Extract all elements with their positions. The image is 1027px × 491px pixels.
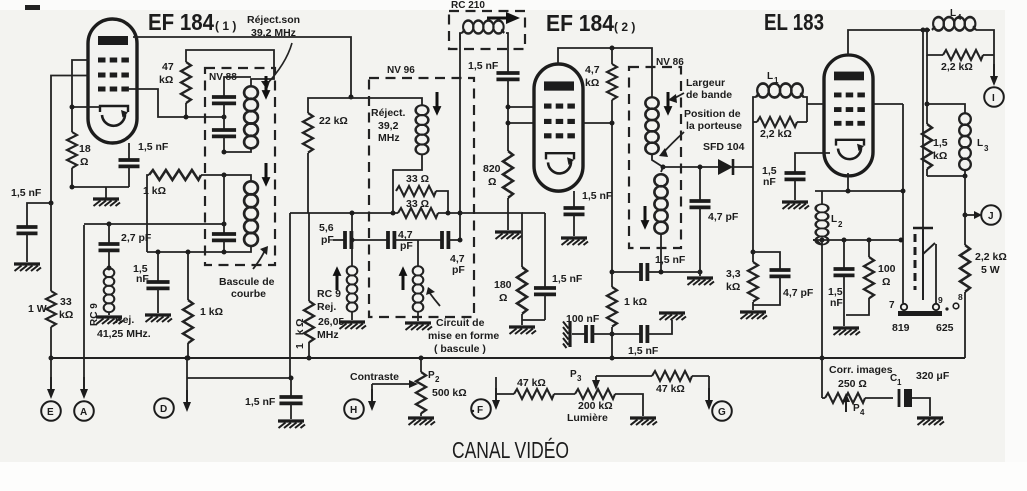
svg-text:( 2 ): ( 2 ) bbox=[614, 20, 635, 34]
capacitor 1,5 nF NV88 bbox=[133, 252, 170, 313]
svg-text:1,5 nF: 1,5 nF bbox=[582, 190, 613, 202]
resistor 1 kOhm vertical bbox=[183, 252, 223, 361]
svg-text:2: 2 bbox=[838, 220, 843, 229]
svg-text:Corr. images: Corr. images bbox=[829, 364, 893, 376]
wire Cx line bbox=[290, 213, 308, 378]
ground P2 bbox=[408, 418, 435, 425]
svg-text:Rej.: Rej. bbox=[115, 314, 134, 326]
wire grid1 V1 left bbox=[51, 76, 89, 204]
capacitor C1 electrolytic bbox=[899, 389, 930, 416]
potentiometer P3 200k Lumière bbox=[567, 369, 615, 424]
svg-text:pF: pF bbox=[321, 234, 334, 246]
coil L2 bbox=[813, 191, 843, 245]
svg-text:18: 18 bbox=[79, 143, 91, 155]
wire top NV96 bbox=[308, 98, 422, 113]
arrow NV86 lower bbox=[641, 206, 650, 230]
terminal I bbox=[984, 55, 1004, 107]
ground C1 bbox=[917, 418, 944, 425]
ground RC9 26,05 bbox=[339, 322, 366, 329]
svg-text:P: P bbox=[428, 370, 435, 381]
svg-text:Rej.: Rej. bbox=[317, 301, 336, 313]
ground 1,5nF screen bbox=[659, 313, 686, 320]
ground 1,5nF NV88 bbox=[145, 315, 172, 322]
terminal F bbox=[471, 399, 491, 419]
capacitor 4,7 pF detector bbox=[690, 165, 739, 273]
bus wire bbox=[49, 357, 965, 359]
label EF 184 (2) bbox=[546, 10, 635, 36]
svg-text:1,5 nF: 1,5 nF bbox=[138, 141, 169, 153]
wire P3 wiper row bbox=[596, 375, 652, 377]
wire 47k bottom bbox=[185, 103, 187, 117]
svg-text:1 W: 1 W bbox=[28, 303, 47, 315]
svg-text:1,5 nF: 1,5 nF bbox=[468, 60, 499, 72]
arrow RC210 bbox=[487, 12, 520, 24]
wire anode V2 top bbox=[558, 46, 652, 98]
ground P3 bbox=[630, 418, 657, 425]
coil L3 bbox=[959, 113, 989, 176]
resistor 3,3 kOhm bbox=[726, 167, 758, 310]
wire screen EL down bbox=[922, 30, 924, 228]
svg-text:3: 3 bbox=[984, 144, 989, 153]
capacitor NV88 upper B bbox=[212, 117, 236, 151]
svg-text:1: 1 bbox=[897, 378, 902, 387]
svg-text:1 kΩ: 1 kΩ bbox=[200, 306, 223, 318]
coil NV88 lower bbox=[244, 181, 258, 246]
svg-text:320 μF: 320 μF bbox=[916, 370, 950, 382]
label Largeur de bande bbox=[686, 77, 732, 101]
resistor 820 Ohm bbox=[483, 151, 513, 230]
svg-text:4: 4 bbox=[957, 13, 962, 22]
potentiometer P4 250 Ohm bbox=[822, 358, 893, 417]
svg-text:100: 100 bbox=[878, 263, 896, 275]
leader circuit mise en forme bbox=[429, 292, 440, 306]
diode SFD104 bbox=[663, 159, 753, 175]
svg-text:5,6: 5,6 bbox=[319, 222, 334, 234]
capacitor 4,7 pF b bbox=[394, 231, 465, 276]
ground RC9 bbox=[96, 317, 123, 324]
resistor 33 Ohm lower bbox=[308, 191, 460, 218]
svg-text:la porteuse: la porteuse bbox=[686, 120, 742, 132]
box RC210 bbox=[449, 0, 525, 49]
svg-text:pF: pF bbox=[452, 264, 465, 276]
capacitor 1,5 nF det line bbox=[612, 254, 686, 281]
resistor 47 kOhm left bbox=[496, 377, 575, 399]
label Circuit de mise en forme (bascule) bbox=[428, 317, 499, 355]
svg-text:1: 1 bbox=[774, 76, 779, 85]
wire grid2 bias line bbox=[84, 222, 227, 227]
svg-text:P: P bbox=[853, 403, 860, 414]
wire 47k top feed bbox=[186, 50, 274, 79]
svg-text:Contraste: Contraste bbox=[350, 371, 399, 383]
node anode feed bbox=[349, 95, 354, 100]
coil NV86 lower bbox=[654, 167, 667, 272]
svg-text:RC 210: RC 210 bbox=[451, 0, 485, 11]
tube V2 EF184(2) bbox=[534, 64, 583, 191]
svg-text:4,7 pF: 4,7 pF bbox=[783, 287, 814, 299]
svg-text:mise en forme: mise en forme bbox=[428, 330, 499, 342]
svg-text:3,3: 3,3 bbox=[726, 268, 741, 280]
svg-text:de bande: de bande bbox=[686, 89, 732, 101]
switch arrow bascule bbox=[253, 250, 265, 269]
wire F arrow bbox=[492, 377, 500, 410]
arrow bascule coil bbox=[399, 266, 408, 290]
svg-text:MHz: MHz bbox=[317, 329, 339, 341]
svg-text:4: 4 bbox=[860, 408, 865, 417]
resistor 33 Ohm upper bbox=[396, 173, 448, 213]
svg-text:A: A bbox=[80, 407, 87, 418]
capacitor 100 nF bbox=[563, 313, 612, 348]
svg-text:39,2: 39,2 bbox=[378, 120, 399, 132]
svg-text:courbe: courbe bbox=[231, 288, 266, 300]
wire screen line down bbox=[583, 100, 615, 287]
node bus D bbox=[185, 356, 190, 361]
resistor 47 kOhm bbox=[159, 61, 191, 103]
capacitor 1,5 nF cathode V2 bbox=[564, 190, 613, 236]
svg-text:7: 7 bbox=[889, 300, 895, 311]
capacitor 5,6 pF bbox=[319, 222, 351, 249]
svg-text:1,5: 1,5 bbox=[933, 137, 948, 149]
svg-text:CANAL VIDÉO: CANAL VIDÉO bbox=[452, 437, 569, 463]
svg-text:Ω: Ω bbox=[499, 292, 507, 304]
wire coil1 bottom bbox=[222, 149, 252, 155]
resistor 180 Ohm bbox=[494, 267, 527, 325]
svg-text:47: 47 bbox=[162, 61, 174, 73]
svg-text:22 kΩ: 22 kΩ bbox=[319, 115, 348, 127]
label Réject.son 39,2 MHz bbox=[247, 14, 300, 39]
svg-text:5 W: 5 W bbox=[981, 264, 1000, 276]
coil L1 bbox=[753, 71, 807, 167]
svg-text:kΩ: kΩ bbox=[59, 309, 73, 321]
wire 1k left elbow bbox=[147, 175, 149, 252]
svg-text:200 kΩ: 200 kΩ bbox=[578, 400, 613, 412]
potentiometer P2 500k bbox=[416, 356, 467, 417]
coil RC9 26,05 bbox=[347, 211, 358, 321]
piezo element top bar bbox=[913, 228, 933, 300]
ground 1,5nF D bbox=[278, 421, 305, 428]
svg-text:NV 86: NV 86 bbox=[656, 57, 684, 68]
ground cathode EL bbox=[833, 328, 860, 335]
svg-text:9: 9 bbox=[938, 295, 943, 305]
capacitor 1,5 nF cathode V1 bbox=[119, 141, 169, 187]
capacitor NV88 upper A bbox=[212, 77, 251, 117]
svg-text:1 kΩ: 1 kΩ bbox=[294, 316, 306, 349]
coil RC210 bbox=[460, 21, 508, 40]
wire L3 bottom join bbox=[927, 174, 968, 218]
wire G arrow bbox=[705, 376, 713, 410]
resistor 1 kOhm horizontal bbox=[143, 170, 201, 197]
wire grid line down to 33k bbox=[50, 203, 52, 291]
resistor 22 kOhm bbox=[303, 113, 348, 213]
ground 3,3k bbox=[740, 312, 767, 319]
svg-text:500 kΩ: 500 kΩ bbox=[432, 387, 467, 399]
wire 18R bottom bbox=[70, 168, 130, 190]
label Position de la porteuse bbox=[684, 108, 742, 132]
terminal D bbox=[154, 398, 174, 418]
svg-text:D: D bbox=[160, 404, 167, 415]
svg-text:EF 184: EF 184 bbox=[546, 10, 614, 36]
piezo dashed electrode bbox=[914, 234, 917, 290]
leader position bbox=[663, 132, 684, 153]
coil bascule former bbox=[413, 240, 424, 321]
terminal A bbox=[74, 225, 94, 421]
resistor 1 kOhm screen bbox=[607, 287, 647, 361]
wire D branch to 1,5nF bbox=[187, 376, 294, 397]
socket pins 7 9 8 bbox=[898, 303, 959, 316]
capacitor 1,5 nF D bbox=[245, 396, 303, 419]
wire anode V1 to NV96 bbox=[133, 37, 351, 97]
resistor Cx 1k bbox=[304, 213, 314, 361]
terminal J bbox=[965, 205, 1001, 225]
capacitor NV88 lower C bbox=[212, 175, 236, 252]
svg-text:1,5 nF: 1,5 nF bbox=[245, 396, 276, 408]
svg-text:1,5 nF: 1,5 nF bbox=[552, 273, 583, 285]
svg-text:8: 8 bbox=[958, 292, 963, 302]
ground 820 bbox=[495, 232, 522, 239]
svg-text:NV 96: NV 96 bbox=[387, 65, 415, 76]
svg-text:pF: pF bbox=[400, 240, 413, 252]
svg-text:L: L bbox=[831, 214, 837, 225]
svg-text:I: I bbox=[992, 93, 995, 104]
svg-text:Réject.: Réject. bbox=[371, 107, 406, 119]
capacitor 1,5 nF screen bbox=[612, 320, 672, 357]
capacitor 4,7 pF a bbox=[351, 229, 413, 252]
wire 180 top bbox=[460, 213, 522, 267]
label Rej 41,25 MHz bbox=[97, 314, 151, 340]
label C1 320 pF bbox=[890, 370, 950, 387]
rotated label Cx bbox=[294, 316, 306, 349]
wire grid3 strap V1 bbox=[72, 60, 89, 107]
svg-text:( bascule ): ( bascule ) bbox=[434, 343, 486, 355]
svg-text:820: 820 bbox=[483, 163, 501, 175]
ground cathode V2 bbox=[561, 238, 588, 245]
resistor 2,2 kOhm L1 bbox=[753, 117, 807, 140]
svg-text:33: 33 bbox=[60, 296, 72, 308]
coil RC9 Rej 41,25 MHz bbox=[104, 268, 115, 315]
labels 7 9 8 bbox=[889, 292, 963, 311]
svg-text:L: L bbox=[977, 138, 983, 149]
svg-text:47 kΩ: 47 kΩ bbox=[517, 377, 546, 389]
ground 1,5nF EL bbox=[782, 202, 809, 209]
capacitor 1,5 nF EL grid bbox=[762, 153, 830, 200]
coil Réject 39,2 bbox=[393, 105, 428, 191]
svg-text:F: F bbox=[477, 405, 483, 416]
resistor 2,2 kOhm 5W bbox=[960, 215, 1007, 358]
svg-text:2,2 kΩ: 2,2 kΩ bbox=[760, 128, 792, 140]
arrow NV86 upper bbox=[664, 92, 673, 116]
svg-text:Ω: Ω bbox=[882, 276, 890, 288]
wire L2 line to bus bbox=[820, 240, 825, 361]
capacitor 1,5 nF mid bbox=[522, 213, 583, 320]
svg-text:kΩ: kΩ bbox=[159, 74, 173, 86]
wire cathode bottom row bbox=[813, 238, 904, 243]
svg-text:819: 819 bbox=[892, 322, 910, 334]
svg-text:1,5 nF: 1,5 nF bbox=[655, 254, 686, 266]
svg-text:H: H bbox=[350, 405, 357, 416]
resistor 4,7 kOhm bbox=[585, 48, 617, 100]
arrow in Réject coil bbox=[433, 92, 442, 116]
terminal G bbox=[712, 401, 732, 421]
svg-text:Bascule de: Bascule de bbox=[219, 276, 275, 288]
label EF 184 (1) bbox=[148, 9, 236, 35]
svg-text:EL 183: EL 183 bbox=[764, 9, 824, 35]
leader to NV88 bbox=[266, 43, 292, 85]
svg-text:P: P bbox=[570, 369, 577, 380]
wire L3 pair top bbox=[925, 55, 966, 124]
svg-text:Lumière: Lumière bbox=[567, 412, 608, 424]
resistor 18 Ohm bbox=[67, 132, 91, 168]
resistor 47 kOhm right bbox=[652, 371, 709, 395]
svg-text:L: L bbox=[767, 71, 773, 82]
tube V3 EL183 bbox=[824, 55, 873, 176]
svg-text:180: 180 bbox=[494, 279, 512, 291]
arrow in coil1 bbox=[262, 76, 271, 100]
svg-text:4,7: 4,7 bbox=[585, 64, 600, 76]
svg-text:3: 3 bbox=[577, 374, 582, 383]
svg-text:SFD 104: SFD 104 bbox=[703, 141, 745, 153]
svg-text:2,2 kΩ: 2,2 kΩ bbox=[941, 61, 973, 73]
resistor 2,2 kOhm L4 bbox=[927, 30, 994, 73]
capacitor 1,5 nF cathode EL bbox=[828, 240, 855, 326]
wire coil1 top bbox=[251, 79, 258, 86]
ground bascule coil bbox=[405, 323, 432, 330]
wire RC210 left down bbox=[458, 33, 463, 243]
wire anode EL top bbox=[848, 28, 930, 56]
svg-text:Ω: Ω bbox=[488, 176, 496, 188]
capacitor 2,7 pF bbox=[99, 224, 152, 271]
svg-text:Ω: Ω bbox=[80, 156, 88, 168]
svg-text:47 kΩ: 47 kΩ bbox=[656, 383, 685, 395]
coil L4 bbox=[932, 8, 994, 55]
wire coil2 bottom / node row bbox=[147, 246, 251, 255]
svg-text:4,7 pF: 4,7 pF bbox=[708, 211, 739, 223]
scan artifact top-left bbox=[25, 5, 40, 10]
svg-text:( 1 ): ( 1 ) bbox=[215, 19, 236, 33]
wire cathode V1 to 18R bbox=[70, 105, 101, 133]
wire grid taps V2 bbox=[506, 105, 535, 126]
label Réject 39,2 MHz bbox=[371, 107, 406, 144]
wire P3 right to ground bbox=[615, 394, 643, 416]
svg-text:J: J bbox=[988, 211, 994, 222]
svg-text:33 Ω: 33 Ω bbox=[406, 198, 429, 210]
arrow RC9 coil bbox=[333, 266, 342, 290]
svg-text:E: E bbox=[47, 407, 54, 418]
label Bascule de courbe bbox=[219, 276, 275, 300]
wire grid3 V1 to NV88 bbox=[128, 89, 227, 120]
svg-text:Circuit de: Circuit de bbox=[436, 317, 485, 329]
arrow in coil2 bbox=[262, 163, 271, 187]
piezo collector stroke bbox=[923, 243, 936, 303]
resistor 100 Ohm bbox=[846, 240, 896, 315]
svg-text:L: L bbox=[950, 8, 956, 19]
svg-text:G: G bbox=[718, 407, 726, 418]
wire contraste wiper bbox=[368, 380, 418, 411]
resistor 1,5 kOhm bbox=[922, 124, 948, 176]
svg-text:625: 625 bbox=[936, 322, 954, 334]
wire EL grid right tap bbox=[873, 104, 903, 303]
svg-text:Position de: Position de bbox=[684, 108, 741, 120]
wire 1k to coil2 bbox=[201, 173, 251, 182]
ground input cap bbox=[14, 264, 41, 271]
labels 819 625 bbox=[892, 322, 954, 334]
box NV96 bbox=[369, 65, 474, 317]
svg-text:nF: nF bbox=[763, 176, 776, 188]
svg-text:250 Ω: 250 Ω bbox=[838, 378, 867, 390]
coil NV86 upper bbox=[645, 97, 665, 169]
ground cathode bbox=[93, 187, 120, 206]
box NV86 bbox=[629, 57, 684, 248]
svg-text:2: 2 bbox=[435, 375, 440, 384]
svg-text:41,25 MHz.: 41,25 MHz. bbox=[97, 328, 151, 340]
wire to D arrow bbox=[183, 358, 191, 412]
capacitor 1,5 nF RC210 bbox=[468, 40, 520, 151]
svg-text:kΩ: kΩ bbox=[933, 150, 947, 162]
svg-text:1,5 nF: 1,5 nF bbox=[11, 187, 42, 199]
svg-text:kΩ: kΩ bbox=[585, 77, 599, 89]
svg-text:2,2 kΩ: 2,2 kΩ bbox=[975, 251, 1007, 263]
capacitor 1,5 nF input left bbox=[11, 187, 54, 262]
svg-text:Réject.son: Réject.son bbox=[247, 14, 300, 26]
capacitor 4,7 pF out bbox=[753, 252, 814, 305]
wire det cap to ground bbox=[661, 270, 703, 277]
wire L1 to grid bbox=[807, 103, 824, 105]
ground 180 bbox=[509, 327, 536, 334]
wire EL cathode to L2 bbox=[815, 173, 906, 194]
wire 33k to bus bbox=[49, 327, 54, 361]
svg-text:Largeur: Largeur bbox=[686, 77, 725, 89]
svg-text:MHz: MHz bbox=[378, 132, 400, 144]
ground detector bbox=[687, 278, 714, 285]
tube V1 EF184(1) bbox=[88, 19, 137, 143]
coil NV88 upper bbox=[244, 86, 258, 148]
leader largeur bbox=[673, 93, 684, 99]
svg-text:1,5 nF: 1,5 nF bbox=[628, 345, 659, 357]
svg-text:33 Ω: 33 Ω bbox=[406, 173, 429, 185]
svg-text:1 kΩ: 1 kΩ bbox=[624, 296, 647, 308]
svg-text:kΩ: kΩ bbox=[726, 281, 740, 293]
terminal H bbox=[344, 399, 364, 419]
label RC 9 Rej 26,05 MHz bbox=[317, 288, 344, 341]
svg-text:EF 184: EF 184 bbox=[148, 9, 214, 35]
label Corr images bbox=[829, 364, 893, 390]
terminal E bbox=[41, 358, 61, 421]
svg-text:nF: nF bbox=[830, 297, 843, 309]
box NV88 bbox=[205, 68, 275, 265]
resistor 33 kOhm 1 W bbox=[28, 291, 73, 327]
